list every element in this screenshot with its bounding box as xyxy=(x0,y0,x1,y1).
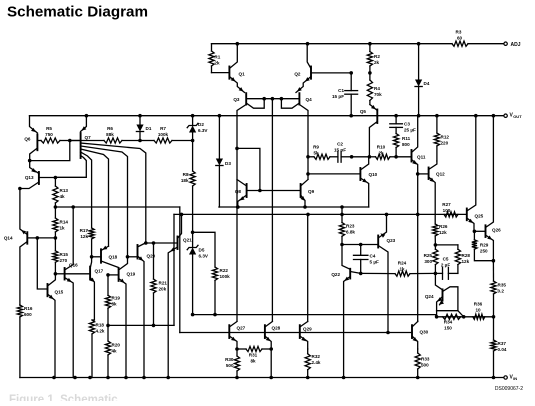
wire Q7 collector fan 3 xyxy=(81,149,109,246)
svg-text:15 pF: 15 pF xyxy=(334,148,346,153)
svg-text:R36: R36 xyxy=(474,302,483,307)
wire top rail xyxy=(212,43,504,45)
wire Q11 emitter drop xyxy=(417,174,419,321)
svg-text:Q17: Q17 xyxy=(95,269,104,274)
transistor Q12 xyxy=(418,161,445,224)
svg-text:D2: D2 xyxy=(198,122,204,127)
resistor R19 xyxy=(105,295,120,325)
terminal VOUT xyxy=(504,113,522,120)
node Q26 emitter junction xyxy=(492,259,496,263)
transistor Q21 xyxy=(168,213,192,378)
node Q8 collector junction xyxy=(235,147,239,151)
svg-text:500: 500 xyxy=(421,363,429,368)
resistor R5 xyxy=(41,126,70,143)
wire Q28 emitter drop xyxy=(269,347,273,377)
terminal ADJ xyxy=(504,42,521,48)
svg-text:5 µF: 5 µF xyxy=(370,260,379,265)
transistor Q23 xyxy=(378,214,395,332)
node Q11 emitter junction xyxy=(416,172,420,176)
wire Q7 base to Q6 collector xyxy=(28,141,70,163)
transistor Q5 xyxy=(360,105,377,157)
resistor R17 xyxy=(80,228,95,257)
wire Q20 collector line xyxy=(144,241,178,245)
wire R19 R21 line xyxy=(108,324,174,326)
transistor Q8 xyxy=(235,180,301,208)
node Q20 base junction xyxy=(126,255,130,259)
resistor R9 xyxy=(308,145,338,160)
node Q14 base junction xyxy=(36,236,58,240)
svg-text:Q11: Q11 xyxy=(417,155,426,160)
transistor Q17 xyxy=(65,257,104,320)
wire Q7 collector fan 5 xyxy=(55,156,86,178)
resistor R22 xyxy=(212,267,230,315)
transistor Q1 xyxy=(212,44,246,93)
svg-text:R17: R17 xyxy=(80,228,89,233)
transistor Q14 xyxy=(4,189,37,306)
node sense line junctions xyxy=(435,315,466,319)
svg-text:12k: 12k xyxy=(462,259,470,264)
transistor Q11 xyxy=(396,116,426,174)
transistor Q22 xyxy=(331,245,360,378)
svg-text:Q9: Q9 xyxy=(308,189,315,194)
node R19 bottom junction xyxy=(106,324,110,328)
svg-text:R12: R12 xyxy=(441,135,450,140)
svg-text:Q14: Q14 xyxy=(4,236,13,241)
node Q27 emitter junction xyxy=(235,347,239,351)
wire Q7 collector fan 4 xyxy=(81,152,92,228)
wire Q19 base corner xyxy=(107,275,109,295)
wire Q7 collector fan 2 xyxy=(81,146,128,257)
node R22 junctions xyxy=(213,313,217,317)
svg-text:R27: R27 xyxy=(442,202,451,207)
resistor R20 xyxy=(105,325,120,377)
wire R24 line xyxy=(361,272,395,274)
svg-text:Q30: Q30 xyxy=(420,330,429,335)
svg-text:R5: R5 xyxy=(46,126,52,131)
svg-text:100k: 100k xyxy=(158,132,169,137)
capacitor C5 xyxy=(435,257,458,280)
resistor R34 xyxy=(443,314,461,330)
wire Q25 base line drop xyxy=(173,214,175,325)
svg-text:2k: 2k xyxy=(378,151,384,156)
svg-text:C1: C1 xyxy=(338,88,344,93)
capacitor C1 xyxy=(332,73,358,116)
svg-text:Q18: Q18 xyxy=(109,255,118,260)
svg-text:800: 800 xyxy=(402,142,410,147)
svg-text:R25: R25 xyxy=(424,253,433,258)
svg-text:Q22: Q22 xyxy=(331,272,340,277)
node Q7 base junction xyxy=(68,139,72,143)
resistor R6 xyxy=(70,126,140,143)
node R23 bottom junction xyxy=(340,243,344,247)
wire Q14 base to R14 xyxy=(37,237,55,239)
svg-text:6.3V: 6.3V xyxy=(198,128,208,133)
svg-text:R19: R19 xyxy=(112,296,121,301)
resistor R14 xyxy=(53,207,69,238)
node Q8 emitter junction xyxy=(236,205,240,209)
resistor R31 xyxy=(237,346,271,363)
resistor R24 xyxy=(395,261,435,277)
diode D2 zener xyxy=(187,116,208,143)
node Q13 base junction xyxy=(54,176,58,180)
svg-text:R32: R32 xyxy=(312,354,321,359)
svg-text:C4: C4 xyxy=(370,254,376,259)
resistor R1 xyxy=(209,44,221,73)
transistor Q26 xyxy=(474,116,501,261)
resistor R30 xyxy=(225,349,240,378)
svg-text:60: 60 xyxy=(457,36,463,41)
node zener line junctions xyxy=(191,313,195,317)
svg-text:12k: 12k xyxy=(80,234,88,239)
svg-text:R9: R9 xyxy=(313,145,319,150)
transistor Q20 xyxy=(128,243,156,378)
transistor Q2 xyxy=(294,44,351,93)
svg-text:ADJ: ADJ xyxy=(511,42,521,48)
resistor R37 xyxy=(491,317,507,378)
resistor R32 xyxy=(305,349,321,378)
resistor R12 xyxy=(434,116,449,161)
svg-text:250: 250 xyxy=(480,249,488,254)
svg-text:Q25: Q25 xyxy=(475,214,484,219)
transistor Q3 xyxy=(233,93,299,108)
svg-text:D5: D5 xyxy=(199,248,205,253)
resistor R10 xyxy=(369,145,396,160)
transistor Q19 xyxy=(106,257,135,378)
wire D5 branch xyxy=(193,232,215,267)
svg-text:4k: 4k xyxy=(60,194,66,199)
svg-text:Q24: Q24 xyxy=(425,294,434,299)
transistor Q29 xyxy=(300,214,312,349)
wire VIN rail xyxy=(20,377,504,379)
node Q25 base line junctions xyxy=(306,213,419,217)
wire Q25 base line xyxy=(174,213,467,215)
svg-text:150: 150 xyxy=(444,326,452,331)
transistor Q10 xyxy=(360,157,377,207)
transistor Q4 xyxy=(281,93,312,108)
svg-text:Q2: Q2 xyxy=(294,72,301,77)
svg-text:R2: R2 xyxy=(374,54,380,59)
svg-text:Q8: Q8 xyxy=(235,189,242,194)
svg-text:R23: R23 xyxy=(346,224,355,229)
svg-text:R28: R28 xyxy=(462,253,471,258)
wire VOUT rail xyxy=(30,115,504,117)
wire mirror base line xyxy=(180,331,412,335)
svg-text:Q4: Q4 xyxy=(306,97,313,102)
svg-text:Schematic Diagram: Schematic Diagram xyxy=(7,4,148,21)
svg-text:R3: R3 xyxy=(456,30,462,35)
svg-text:R31: R31 xyxy=(249,353,258,358)
svg-text:100k: 100k xyxy=(220,274,231,279)
svg-text:70k: 70k xyxy=(374,92,382,97)
svg-text:C5: C5 xyxy=(443,257,449,262)
svg-text:20k: 20k xyxy=(159,287,167,292)
wire Q7 collector fan 1 xyxy=(81,143,146,243)
svg-text:C3: C3 xyxy=(404,122,410,127)
diode D1 xyxy=(136,116,151,143)
resistor R29 xyxy=(472,230,494,261)
svg-text:Q10: Q10 xyxy=(369,172,378,177)
svg-text:D4: D4 xyxy=(424,81,430,86)
resistor R16 xyxy=(17,305,33,378)
capacitor C4 xyxy=(354,245,379,274)
transistor Q18 xyxy=(92,246,119,268)
svg-text:R29: R29 xyxy=(480,243,489,248)
svg-text:1k: 1k xyxy=(399,267,405,272)
svg-text:D1: D1 xyxy=(146,126,152,131)
resistor R13 xyxy=(53,178,69,208)
svg-text:6.3V: 6.3V xyxy=(199,254,209,259)
svg-text:R21: R21 xyxy=(159,281,168,286)
capacitor C2 xyxy=(334,142,352,163)
svg-text:Figure 1. Schematic: Figure 1. Schematic xyxy=(9,394,118,401)
resistor R8 xyxy=(181,141,195,233)
svg-text:R16: R16 xyxy=(24,306,33,311)
resistor R25 xyxy=(424,245,438,274)
svg-text:500: 500 xyxy=(226,363,234,368)
wire quad center drop xyxy=(271,99,273,321)
svg-text:2 µF: 2 µF xyxy=(441,263,450,268)
svg-text:15 pF: 15 pF xyxy=(332,94,344,99)
node R17 bottom junction xyxy=(90,255,94,259)
svg-text:R33: R33 xyxy=(421,357,430,362)
svg-text:R30: R30 xyxy=(225,357,234,362)
svg-text:1k: 1k xyxy=(60,226,66,231)
resistor R3 xyxy=(452,30,468,47)
transistor Q24 xyxy=(425,287,458,317)
diode D5 zener xyxy=(187,232,209,314)
transistor Q30 xyxy=(412,321,429,349)
resistor R18 xyxy=(89,320,104,378)
resistor R23 xyxy=(339,207,355,245)
node R23 top junctions xyxy=(340,205,344,216)
node R2 bottom junction xyxy=(349,71,371,75)
svg-text:750: 750 xyxy=(45,132,53,137)
svg-text:R8: R8 xyxy=(183,172,189,177)
svg-text:2k: 2k xyxy=(214,61,220,66)
svg-text:R4: R4 xyxy=(374,86,380,91)
svg-text:R6: R6 xyxy=(107,126,113,131)
resistor R27 xyxy=(442,202,458,217)
node VIN rail junctions xyxy=(52,376,495,380)
wire current sense line xyxy=(437,311,494,317)
resistor R26 xyxy=(433,224,448,245)
svg-text:270: 270 xyxy=(60,258,68,263)
svg-text:5k: 5k xyxy=(313,151,319,156)
svg-text:Q21: Q21 xyxy=(183,238,192,243)
svg-text:R7: R7 xyxy=(160,126,166,131)
svg-text:4.2k: 4.2k xyxy=(96,329,105,334)
svg-text:DS009067-2: DS009067-2 xyxy=(495,386,523,392)
svg-text:Q20: Q20 xyxy=(147,254,156,259)
svg-text:R10: R10 xyxy=(377,145,386,150)
transistor Q15 xyxy=(48,274,64,378)
svg-text:R22: R22 xyxy=(220,268,229,273)
svg-text:D3: D3 xyxy=(225,161,231,166)
transistor Q16 xyxy=(55,207,78,378)
resistor R33 xyxy=(415,349,430,378)
diode D4 xyxy=(415,44,430,116)
resistor R36 xyxy=(473,302,485,320)
transistor Q25 xyxy=(467,116,484,232)
wire bias line left xyxy=(55,205,179,209)
node Q9 collector junctions xyxy=(306,155,310,176)
node R15 bottom junction xyxy=(54,272,58,276)
node C4 bottom junction xyxy=(359,272,363,276)
svg-text:R15: R15 xyxy=(60,252,69,257)
svg-text:Q1: Q1 xyxy=(239,72,246,77)
resistor R2 xyxy=(367,44,380,73)
svg-text:Q15: Q15 xyxy=(55,290,64,295)
node R10 right junction xyxy=(394,155,398,159)
svg-text:10: 10 xyxy=(475,308,481,313)
transistor Q9 xyxy=(300,180,314,208)
svg-text:18k: 18k xyxy=(181,178,189,183)
svg-text:Q27: Q27 xyxy=(237,326,246,331)
transistor Q6 xyxy=(24,116,41,161)
svg-text:Q29: Q29 xyxy=(303,327,312,332)
resistor R28 xyxy=(455,245,470,274)
node R24 right junction xyxy=(434,272,438,276)
svg-text:C2: C2 xyxy=(337,142,343,147)
transistor Q7 xyxy=(70,116,91,158)
svg-text:Q28: Q28 xyxy=(272,326,281,331)
node D5 top junction xyxy=(191,231,195,235)
resistor R7 xyxy=(140,126,193,143)
svg-text:25 µF: 25 µF xyxy=(404,128,416,133)
svg-text:Q6: Q6 xyxy=(24,137,31,142)
svg-text:R13: R13 xyxy=(60,188,69,193)
svg-text:R34: R34 xyxy=(444,320,453,325)
wire Q23 base line xyxy=(342,243,378,247)
wire quad left drop xyxy=(237,105,246,322)
svg-text:R20: R20 xyxy=(112,343,121,348)
svg-text:R24: R24 xyxy=(398,261,407,266)
wire Q8 diode connect xyxy=(237,148,262,192)
svg-text:2.4k: 2.4k xyxy=(312,360,321,365)
svg-text:Q19: Q19 xyxy=(127,272,136,277)
svg-text:Q7: Q7 xyxy=(85,135,92,140)
svg-text:2k: 2k xyxy=(374,60,380,65)
node VOUT rail junctions xyxy=(85,114,496,118)
svg-text:Q13: Q13 xyxy=(25,175,34,180)
svg-text:Q16: Q16 xyxy=(69,263,78,268)
svg-text:Q26: Q26 xyxy=(492,228,501,233)
wire Q24 feed xyxy=(435,273,442,289)
svg-text:IN: IN xyxy=(513,376,517,381)
node R35 bottom junction xyxy=(492,315,496,319)
svg-text:300: 300 xyxy=(424,259,432,264)
svg-text:R26: R26 xyxy=(439,224,448,229)
wire C2 to Q5 xyxy=(352,155,372,159)
transistor Q13 xyxy=(18,161,55,191)
svg-text:0.2: 0.2 xyxy=(498,289,505,294)
wire Q10 base line xyxy=(308,173,360,175)
svg-text:R18: R18 xyxy=(96,323,105,328)
svg-text:88k: 88k xyxy=(106,132,114,137)
wire bias line drop xyxy=(179,207,181,333)
svg-text:0.04: 0.04 xyxy=(498,347,507,352)
terminal VIN xyxy=(504,375,517,382)
node bias line junctions xyxy=(54,205,307,209)
svg-text:8k: 8k xyxy=(112,302,118,307)
svg-text:6.8k: 6.8k xyxy=(346,230,355,235)
transistor Q28 xyxy=(265,322,281,350)
svg-text:12k: 12k xyxy=(439,230,447,235)
wire bias line right xyxy=(219,206,369,208)
svg-text:Q5: Q5 xyxy=(360,109,367,114)
wire compensation box top xyxy=(434,243,458,247)
wire Q15 base drop xyxy=(37,238,47,289)
svg-text:Q3: Q3 xyxy=(233,97,240,102)
resistor R15 xyxy=(53,238,69,274)
svg-text:Q12: Q12 xyxy=(436,172,445,177)
transistor Q27 xyxy=(229,322,245,350)
capacitor C3 xyxy=(390,116,416,134)
diode D3 xyxy=(216,116,232,207)
svg-text:Q23: Q23 xyxy=(387,238,396,243)
wire zener line xyxy=(193,315,437,317)
svg-text:OUT: OUT xyxy=(513,114,522,119)
svg-text:600: 600 xyxy=(24,312,32,317)
svg-text:8k: 8k xyxy=(250,359,256,364)
node C2 junction xyxy=(350,155,354,159)
svg-text:4k: 4k xyxy=(112,349,118,354)
svg-text:100: 100 xyxy=(443,208,451,213)
node quad base junctions xyxy=(262,97,283,101)
svg-text:220: 220 xyxy=(441,141,449,146)
svg-text:R14: R14 xyxy=(60,220,69,225)
resistor R4 xyxy=(367,73,382,105)
svg-text:R11: R11 xyxy=(402,136,411,141)
resistor R11 xyxy=(394,134,411,157)
wire quad right drop xyxy=(299,105,308,180)
svg-text:R1: R1 xyxy=(214,55,220,60)
svg-text:R37: R37 xyxy=(498,341,507,346)
resistor R21 xyxy=(151,243,167,327)
node top rail junctions xyxy=(236,42,421,46)
svg-text:R35: R35 xyxy=(498,283,507,288)
resistor R35 xyxy=(491,261,506,317)
